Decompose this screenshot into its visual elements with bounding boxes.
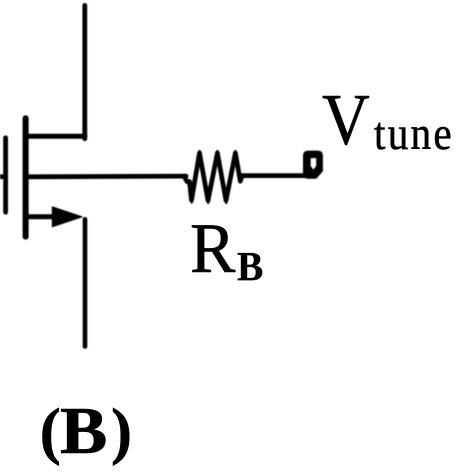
label (B) caption letter B bbox=[60, 398, 107, 465]
resistor RB zigzag bbox=[184, 153, 242, 201]
label RB R bbox=[190, 214, 235, 285]
wire source vertical bbox=[83, 219, 88, 346]
label RB subscript B bbox=[237, 246, 263, 288]
label (B) caption open paren bbox=[40, 400, 61, 463]
wire resistor to Vtune terminal bbox=[242, 173, 307, 178]
transistor Q1 gate lead wire bbox=[0, 174, 6, 179]
wire drain vertical bbox=[82, 5, 87, 138]
wire source horizontal bbox=[26, 214, 58, 219]
terminal Vtune open connector bbox=[303, 151, 323, 179]
transistor Q1 source arrow bbox=[52, 207, 82, 227]
label Vtune V bbox=[322, 83, 370, 157]
wire body to resistor bbox=[26, 174, 186, 179]
transistor Q1 channel bar bbox=[23, 118, 29, 236]
transistor Q1 gate plate bbox=[3, 138, 8, 212]
wire drain horizontal bbox=[26, 134, 85, 139]
resistor RB zigzag tip spikes bbox=[192, 151, 236, 203]
label (B) caption close paren bbox=[111, 400, 132, 463]
label Vtune subscript tune bbox=[374, 112, 454, 159]
